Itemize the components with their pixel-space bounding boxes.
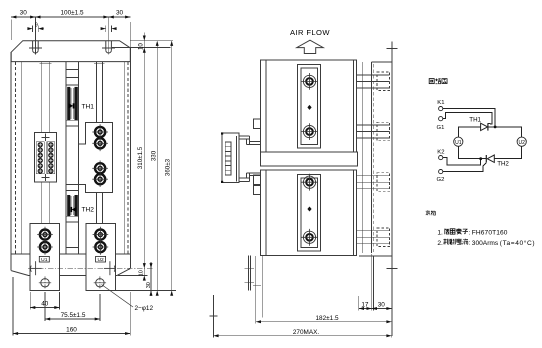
upper module body (side view) <box>261 60 357 152</box>
left busbar pair <box>41 62 43 133</box>
svg-text:300Arms: 300Arms <box>472 240 499 247</box>
gate/cathode terminal block (side view, left) <box>222 119 261 195</box>
anode terminal bolts on upper right plate <box>92 124 108 140</box>
svg-text:TH2: TH2 <box>82 206 95 213</box>
right mounting clip screw <box>104 261 116 275</box>
svg-text:75.5±1.5: 75.5±1.5 <box>61 312 86 319</box>
svg-text:2.: 2. <box>437 240 443 247</box>
svg-text:360±3: 360±3 <box>165 158 172 176</box>
svg-text:1.: 1. <box>437 230 443 237</box>
upper right terminal plate <box>79 123 113 193</box>
terminal G1 <box>439 117 443 121</box>
svg-text:40: 40 <box>41 300 49 307</box>
wire TH2 anode to U2 <box>494 146 521 158</box>
busbar plates hanging below (side view) <box>245 255 263 317</box>
U1 busbar plate <box>30 223 59 290</box>
side strip screws and centers <box>301 73 318 90</box>
mounting slot right <box>106 41 112 53</box>
U2 plate terminal bolts <box>93 227 109 243</box>
terminal studs through fin plate (4 groups) <box>357 72 390 246</box>
fin lines <box>15 62 17 254</box>
wire K1 to TH1 cathode node <box>443 109 495 127</box>
heatsink fin plate (side view right) <box>359 41 398 336</box>
svg-text:FH670T160: FH670T160 <box>472 230 508 237</box>
slot centre cross marks <box>29 47 42 49</box>
bottom dims of front view <box>13 277 133 336</box>
gate terminal block TB <box>35 132 57 182</box>
svg-text:30: 30 <box>20 10 28 17</box>
lower terminal strip <box>297 175 320 252</box>
thyristor TH1 symbol <box>481 123 488 130</box>
svg-text:182±1.5: 182±1.5 <box>315 315 338 322</box>
air flow arrow <box>297 40 323 53</box>
svg-text:160: 160 <box>66 326 77 333</box>
right busbar pair <box>95 62 97 123</box>
middle view dimensions <box>210 254 392 338</box>
bottom bracket <box>11 271 28 276</box>
thyristor TH1 (front view, clamped device) <box>67 87 78 120</box>
mounting hole left (2-phi12) <box>39 276 51 289</box>
svg-text:30: 30 <box>146 282 152 288</box>
lower module body (side view) <box>261 170 357 255</box>
wire G2 to TH2 gate <box>443 163 486 172</box>
U1 plate terminal bolts <box>37 227 53 243</box>
svg-text:TH1: TH1 <box>469 117 481 124</box>
label U1 <box>39 256 49 263</box>
svg-text:2−φ12: 2−φ12 <box>135 305 154 312</box>
svg-text:9: 9 <box>35 23 38 29</box>
svg-text:10: 10 <box>137 43 144 50</box>
vertical dims right of front view <box>28 32 176 296</box>
wire TH1 cathode to U2 branch <box>488 127 522 137</box>
note line 2: 2.制御電流 300Arms (Ta=40C) <box>437 239 535 247</box>
upper terminal strip <box>297 65 320 149</box>
svg-text:K2: K2 <box>437 150 444 156</box>
svg-text:TH1: TH1 <box>82 103 95 110</box>
heading 定格 <box>426 210 436 215</box>
svg-text:(Ta=40°C): (Ta=40°C) <box>500 239 535 247</box>
svg-text:U2: U2 <box>97 257 104 263</box>
wire U1 bottom branch <box>458 146 486 158</box>
svg-text:G1: G1 <box>437 125 445 131</box>
terminal U1 <box>454 137 463 146</box>
svg-text:TH2: TH2 <box>497 160 509 167</box>
top mounting bracket <box>11 41 130 62</box>
heatsink body outline <box>10 52 12 270</box>
wire U1 top branch <box>458 127 480 137</box>
thyristor TH2 (front view, clamped device) <box>67 195 78 216</box>
svg-text:330: 330 <box>151 150 158 161</box>
thyristor stack column <box>65 62 67 255</box>
svg-text:U2: U2 <box>518 140 525 146</box>
terminal block screws (gate terminal block) <box>38 142 54 174</box>
U2 busbar plate <box>86 223 116 290</box>
svg-text:270MAX.: 270MAX. <box>293 329 320 336</box>
mounting hole right (2-phi12) <box>94 276 106 289</box>
svg-text:30: 30 <box>116 10 124 17</box>
note line 1: 1.使用素子 FH670T160 <box>437 228 507 236</box>
svg-text::: : <box>469 230 471 236</box>
wire G1 to TH1 gate <box>443 113 492 124</box>
terminal G2 <box>439 170 443 174</box>
left mounting clip screw <box>30 261 42 275</box>
svg-text:G2: G2 <box>437 177 445 183</box>
small fixing tabs on module face <box>254 119 261 129</box>
interconnect busbar band <box>261 152 358 166</box>
wire K2 to TH2 cathode node <box>443 158 481 166</box>
svg-text:310±1.5: 310±1.5 <box>137 146 144 169</box>
title 回路図 <box>429 78 447 83</box>
terminal U2 <box>517 137 526 146</box>
svg-text:100±1.5: 100±1.5 <box>60 10 83 17</box>
svg-text:U1: U1 <box>455 140 462 146</box>
label U2 <box>96 256 106 263</box>
svg-text:AIR FLOW: AIR FLOW <box>290 28 330 37</box>
svg-text:10: 10 <box>139 270 145 276</box>
node: TH1 cathode / K1 junction <box>494 126 497 129</box>
connecting bars to module <box>239 135 249 137</box>
svg-text:30: 30 <box>378 301 386 308</box>
terminal K2 <box>439 156 443 160</box>
svg-text:U1: U1 <box>41 257 48 263</box>
terminal K1 <box>439 107 443 111</box>
svg-text::: : <box>469 241 471 247</box>
thyristor TH2 symbol <box>486 155 494 162</box>
svg-text:K1: K1 <box>437 100 444 106</box>
svg-text:17: 17 <box>361 301 369 308</box>
rear mounting bracket <box>391 41 393 336</box>
heatsink bottom edge <box>11 253 30 255</box>
node: TH2 cathode / K2 junction <box>479 157 482 160</box>
mounting slot left <box>33 41 39 53</box>
